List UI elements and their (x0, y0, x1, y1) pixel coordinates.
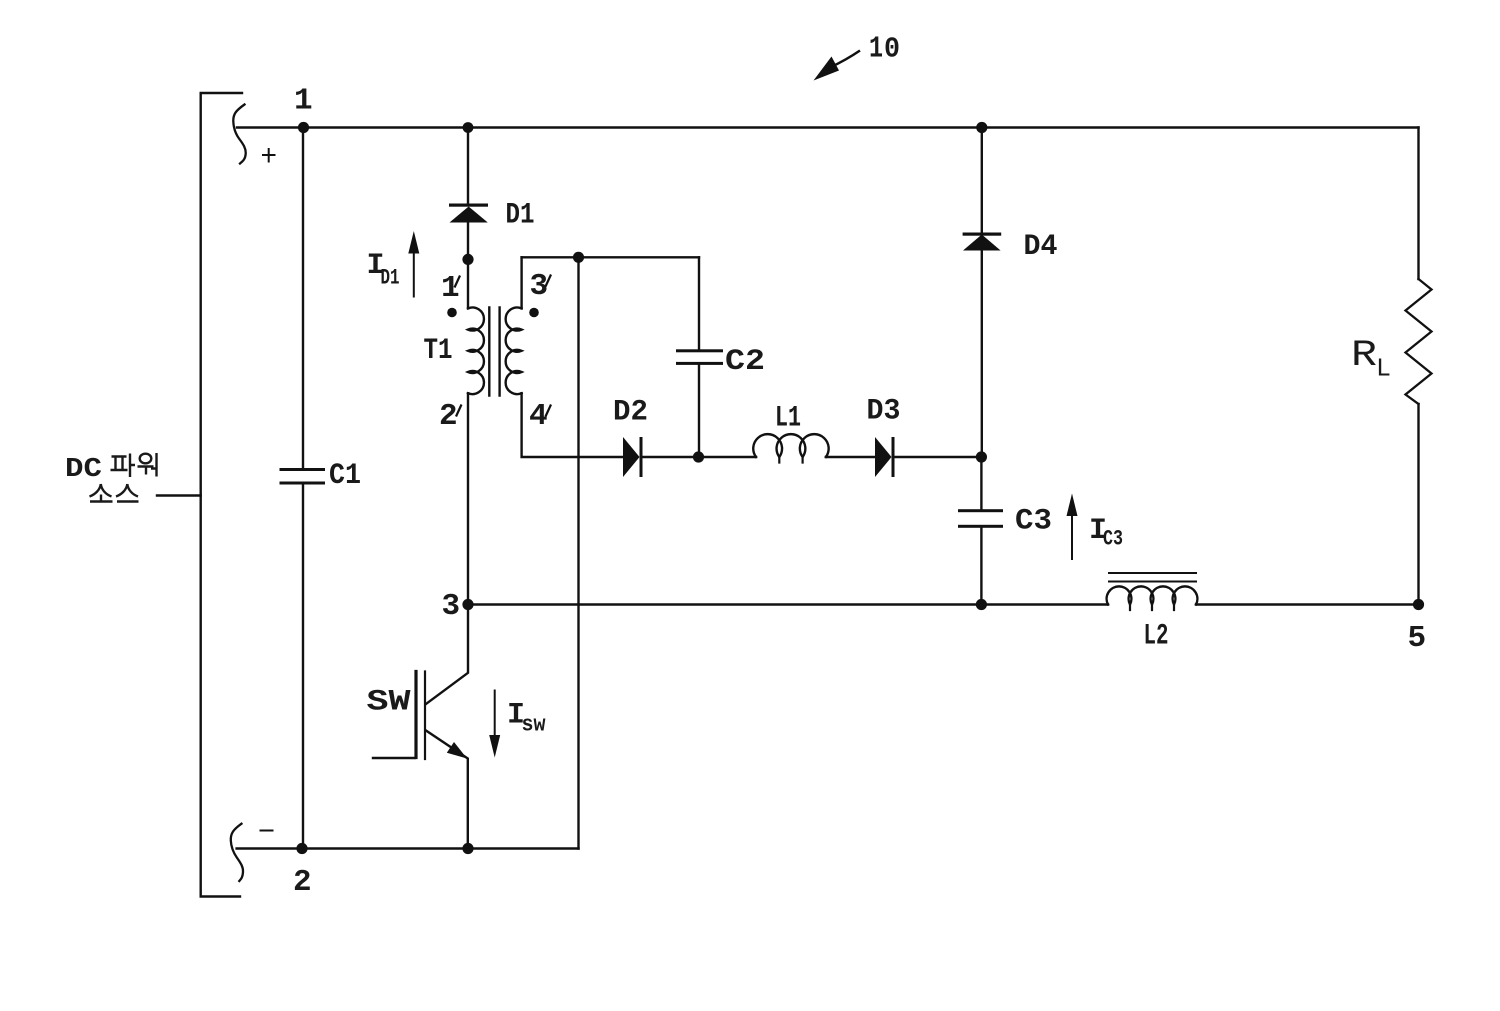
prime mark 3' (546, 275, 552, 287)
wire D1 to junction (467, 222, 469, 260)
svg-text:L1: L1 (775, 402, 801, 436)
svg-text:D3: D3 (867, 395, 901, 429)
hangul glyph SEU of 소스 (116, 484, 139, 502)
svg-text:D4: D4 (1024, 230, 1058, 264)
svg-text:R: R (1351, 335, 1377, 377)
svg-text:C3: C3 (1103, 527, 1123, 552)
minus sign (260, 830, 274, 832)
svg-text:SW: SW (367, 686, 411, 720)
svg-text:L: L (1376, 354, 1391, 384)
wire node 3 to SW collector (426, 605, 468, 705)
wire top rail to D1 (467, 128, 469, 205)
transistor SW emitter arrowhead (447, 742, 467, 759)
diode D3 (875, 437, 892, 477)
T1 phase dot 1' (447, 308, 457, 318)
current arrow I_D1 shaft (413, 252, 415, 298)
svg-text:1: 1 (294, 84, 313, 119)
current arrow I_sw head (489, 735, 500, 758)
svg-text:T1: T1 (424, 334, 453, 368)
svg-text:DC: DC (65, 455, 102, 485)
current arrow I_D1 head (408, 231, 419, 254)
diode D2 (623, 437, 640, 477)
break squiggle top (233, 105, 245, 164)
svg-text:L2: L2 (1144, 620, 1169, 654)
junction dot D4 top (976, 122, 987, 133)
svg-text:C1: C1 (329, 459, 361, 493)
svg-text:3: 3 (442, 589, 461, 624)
node 2 dot (296, 843, 307, 854)
transformer T1 primary winding (468, 308, 484, 395)
wire L2 to node 5 (1196, 603, 1419, 605)
prime mark 4' (546, 405, 552, 417)
svg-text:2: 2 (293, 865, 312, 900)
wire D2 to junction (642, 456, 756, 458)
junction dot SW emitter bottom (462, 843, 473, 854)
svg-text:2: 2 (439, 399, 458, 434)
transistor SW body bar (424, 672, 426, 760)
svg-text:4: 4 (529, 399, 548, 434)
transistor SW emitter (426, 731, 468, 849)
T1 phase dot 3' (529, 308, 539, 318)
DC source label lead line (157, 494, 201, 496)
wire RL to top rail (1417, 128, 1419, 280)
svg-text:1: 1 (869, 32, 883, 67)
junction dot 3' wire (573, 252, 584, 263)
junction dot D1 T1 (462, 254, 473, 265)
wire junction to C2 (698, 257, 700, 349)
inductor L2 core lines (1109, 573, 1196, 582)
capacitor C1 plates (280, 468, 326, 471)
current arrow I_C3 shaft (1071, 515, 1073, 560)
node 1 dot (298, 122, 309, 133)
prime mark 1' (455, 276, 461, 288)
wire node5 up to RL (1417, 404, 1419, 605)
junction dot C2 on D2 rail (693, 451, 704, 462)
output rail C3 to L2 (981, 603, 1108, 605)
svg-text:D2: D2 (613, 396, 648, 430)
junction dot top of D1 branch (463, 122, 474, 133)
wire node1 to C1 (302, 128, 304, 469)
reference arrow 10 shaft (830, 51, 860, 68)
junction dot D3 D4 C3 (976, 451, 987, 462)
svg-text:D1: D1 (506, 199, 535, 233)
inductor L1 winding (753, 434, 828, 457)
wire C2 to D2 rail (698, 364, 700, 457)
wire C1 to bottom rail (302, 485, 304, 849)
wire L1 to D3 (826, 456, 875, 458)
wire 3' to C2 junction (522, 256, 699, 258)
diode D1 (449, 204, 488, 207)
current arrow I_sw shaft (494, 690, 496, 737)
wire junction to T1 primary (467, 259, 469, 308)
svg-text:sw: sw (522, 713, 547, 738)
capacitor C2 plates (676, 349, 723, 352)
svg-text:D1: D1 (381, 266, 400, 291)
wire top rail to D4 (981, 128, 983, 233)
inductor L2 winding (1107, 586, 1198, 604)
svg-text:C3: C3 (1015, 505, 1052, 539)
node 5 dot (1413, 599, 1424, 610)
hangul glyph SO of 소스 (90, 484, 113, 502)
transformer T1 core lines (489, 308, 499, 396)
transformer T1 secondary winding (506, 308, 522, 395)
svg-text:5: 5 (1408, 621, 1427, 656)
wire D3 to junction (894, 456, 981, 458)
capacitor C3 plates (958, 509, 1003, 512)
prime mark 2' (456, 405, 462, 417)
long vertical wire to bottom rail (577, 257, 579, 848)
wire C3 to output rail (980, 527, 982, 605)
resistor RL zigzag (1406, 279, 1432, 404)
wire T1 primary to node 3 (467, 393, 469, 604)
output rail node 3 to C3 (468, 603, 981, 605)
diode D4 (963, 233, 1002, 236)
plus sign (262, 148, 276, 163)
transistor SW gate bar (414, 672, 417, 758)
wire D4 to junction (981, 250, 983, 457)
hangul glyph WO of 파워 (140, 454, 152, 464)
reference arrow 10 head (814, 57, 840, 81)
node 3 dot (462, 599, 473, 610)
hangul glyph PA of 파워 (111, 454, 136, 478)
DC source bracket (201, 93, 242, 897)
break squiggle bottom (231, 824, 243, 881)
bottom rail wire (237, 847, 579, 849)
svg-text:C2: C2 (725, 345, 765, 379)
current arrow I_C3 head (1067, 494, 1078, 517)
top rail wire (237, 126, 1419, 128)
junction dot C3 bottom (976, 599, 987, 610)
wire secondary bottom 4' to D2 (522, 393, 623, 457)
wire secondary top 3' riser (520, 257, 522, 308)
svg-text:1: 1 (441, 271, 460, 306)
wire junction to C3 (980, 457, 982, 510)
svg-text:0: 0 (884, 33, 900, 66)
svg-text:3: 3 (530, 269, 549, 304)
transistor SW gate lead (373, 757, 415, 759)
